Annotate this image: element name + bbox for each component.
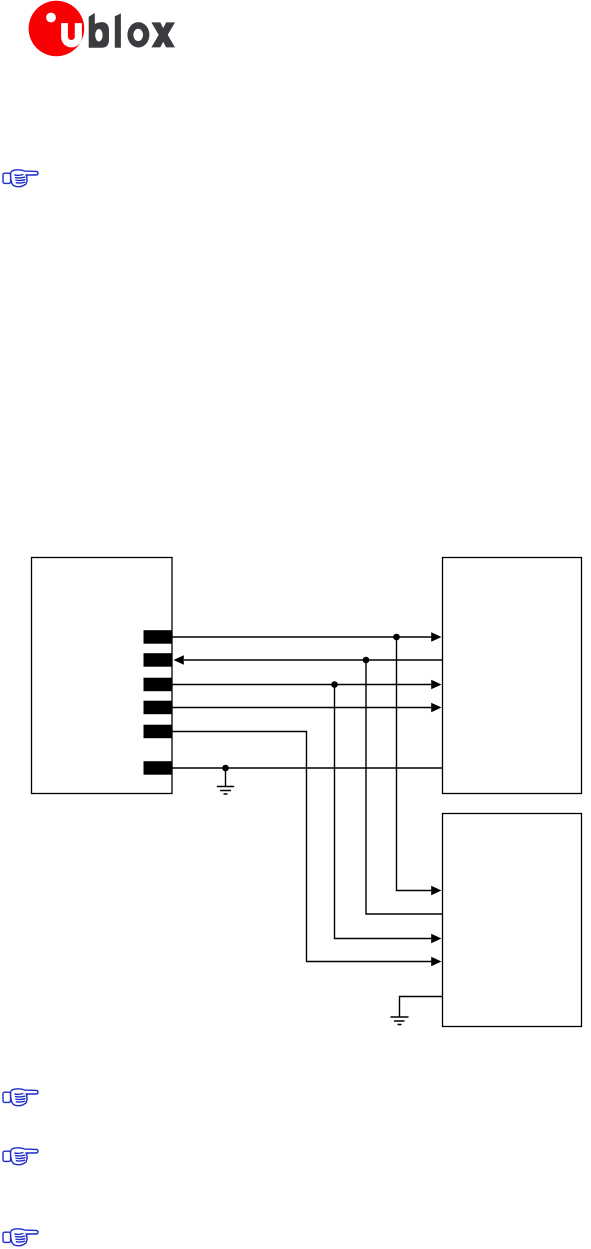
left module box — [32, 558, 173, 794]
note finger icon 1 — [2, 169, 39, 189]
pin 3 — [144, 678, 173, 692]
logo white dot — [46, 13, 56, 23]
junction dot W2 — [363, 657, 370, 664]
wire W3 vertical branch — [335, 685, 433, 939]
ground 2 bar 2 — [394, 1020, 405, 1022]
logo letter x — [151, 22, 175, 47]
arrowhead W4 into top right box — [431, 703, 441, 713]
pin 5 — [144, 725, 173, 739]
top right module box — [443, 558, 582, 794]
hand icon definition — [0, 0, 1, 1]
wire W3 horizontal — [172, 684, 432, 686]
note finger icon 2 — [2, 1088, 39, 1108]
ground 2 bar 3 — [398, 1024, 402, 1026]
wire W4 — [172, 707, 432, 709]
wire W6 — [172, 767, 443, 769]
note finger icon 4 — [2, 1228, 39, 1248]
u-blox logo — [0, 0, 200, 70]
logo letter l — [115, 13, 121, 47]
wire W1 vertical branch — [397, 637, 433, 891]
pin 6 — [144, 761, 173, 775]
arrowhead W3 branch into bottom right box — [431, 934, 441, 944]
note finger icon 3 — [2, 1147, 39, 1167]
wire W5 — [172, 732, 432, 962]
pin 2 — [144, 653, 173, 667]
ground 1 bar 1 — [217, 786, 234, 788]
logo white u — [61, 23, 82, 47]
wire W1 horizontal — [172, 636, 432, 638]
pin 1 — [144, 630, 173, 644]
pin 4 — [144, 701, 173, 715]
junction dot W1 — [393, 634, 400, 641]
arrowhead W3 into top right box — [431, 680, 441, 690]
ground 2 bar 1 — [391, 1016, 409, 1018]
ground wire 2 — [400, 997, 443, 1018]
junction dot W6 — [222, 765, 229, 772]
ground 1 bar 2 — [220, 790, 231, 792]
wire W2 horizontal — [184, 659, 443, 661]
bottom right module box — [443, 814, 582, 1027]
wire W2 vertical branch — [366, 660, 443, 914]
logo letter b — [89, 13, 109, 48]
arrowhead W1 into top right box — [431, 632, 441, 642]
logo red circle — [29, 1, 85, 57]
junction dot W3 — [331, 681, 338, 688]
arrowhead W2 into pin 2 — [174, 655, 184, 665]
arrowhead W1 branch into bottom right box — [431, 886, 441, 896]
ground 1 bar 3 — [224, 793, 228, 795]
ground stem 1 — [225, 768, 227, 787]
logo letter o — [127, 22, 149, 47]
arrowhead W5 into bottom right box — [431, 957, 441, 967]
